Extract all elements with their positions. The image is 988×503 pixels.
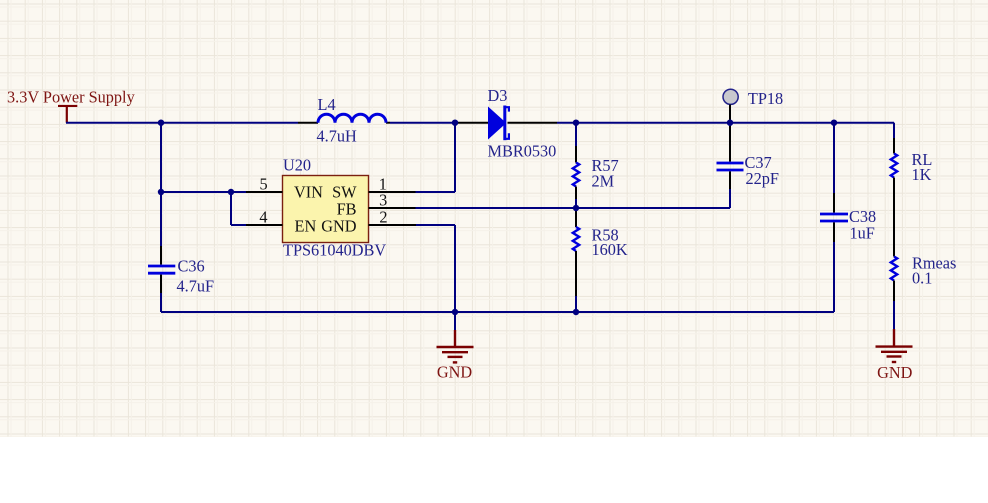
svg-text:3.3V Power Supply: 3.3V Power Supply [7,87,135,107]
wire GND net from pin2 [416,225,455,312]
wire FB net [416,189,731,208]
resistor RL [891,123,933,184]
ground right GND [876,301,913,382]
junction EN feed [228,189,234,195]
pin 3 FB [369,190,416,210]
diode D3 MBR0530 [456,85,557,160]
pin 1 SW [369,174,416,194]
svg-text:U20: U20 [283,155,311,175]
svg-text:MBR0530: MBR0530 [488,141,557,161]
junction top rail at C36 branch [158,120,164,126]
svg-text:L4: L4 [318,95,337,115]
junction top rail at SW branch [452,120,458,126]
pin 2 GND [369,207,417,227]
wire top rail left [66,122,298,124]
svg-text:22pF: 22pF [746,169,779,189]
resistor Rmeas [891,253,957,301]
svg-text:VIN: VIN [294,182,323,202]
svg-text:TP18: TP18 [748,88,783,108]
wire EN feed [231,192,246,225]
junction bottom rail at R58 [573,309,579,315]
svg-text:TPS61040DBV: TPS61040DBV [283,240,386,260]
svg-text:2: 2 [379,207,387,227]
pin 5 VIN [246,174,283,194]
capacitor C38 [820,123,876,312]
capacitor C36 [148,246,214,296]
svg-text:EN: EN [295,216,317,236]
svg-text:GND: GND [877,363,912,383]
wire bottom rail [161,311,834,313]
svg-text:2M: 2M [592,171,615,191]
svg-text:GND: GND [437,362,472,382]
svg-text:4.7uH: 4.7uH [317,126,357,146]
svg-text:1K: 1K [912,165,932,185]
wire VIN feed horizontal [161,191,246,193]
resistor R58 [573,208,628,312]
svg-text:4.7uF: 4.7uF [177,276,215,296]
svg-text:4: 4 [259,207,268,227]
wire C36/VIN branch vertical [160,123,162,246]
svg-text:GND: GND [321,216,356,236]
svg-text:0.1: 0.1 [912,268,932,288]
svg-text:D3: D3 [488,85,508,105]
inductor L4 [298,95,390,146]
junction VIN feed [158,189,164,195]
svg-text:5: 5 [260,174,268,194]
wire SW net [416,123,456,192]
capacitor C37 [717,123,779,189]
wire top rail right (after D3) [557,122,894,124]
test point TP18 [723,88,783,122]
power port 3.3V Power Supply [7,87,135,123]
junction top rail at TP18/C37 [727,120,733,126]
ground left GND [437,312,474,382]
svg-text:1uF: 1uF [850,223,875,243]
svg-text:C36: C36 [178,256,205,276]
junction bottom rail at GND stub [452,309,458,315]
wire RL to Rmeas [893,178,895,257]
IC U20 TPS61040DBV [283,155,387,260]
wire top rail mid (after L4) [390,122,456,124]
wire C36 to bottom rail [160,293,162,312]
resistor R57 [573,123,619,208]
junction top rail at R57 branch [573,120,579,126]
pin 4 EN [246,207,283,227]
junction FB node [573,205,579,211]
svg-text:160K: 160K [592,240,628,260]
junction top rail at C38 branch [831,120,837,126]
